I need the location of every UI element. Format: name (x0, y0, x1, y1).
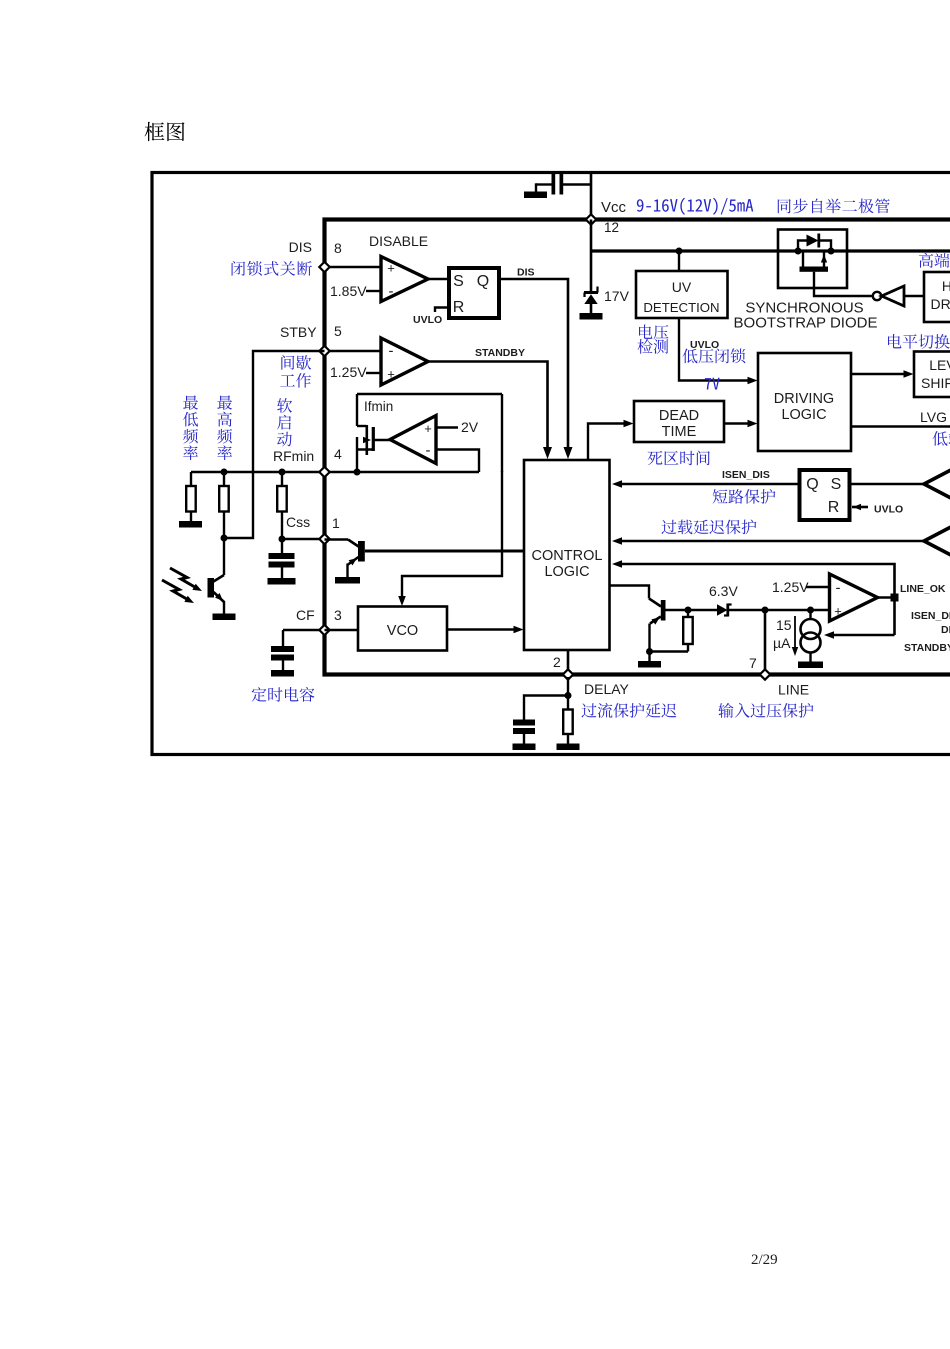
resistor R-line (687, 610, 689, 617)
wire line node to comparator plus (765, 609, 830, 611)
svg-text:4: 4 (334, 446, 342, 462)
wire inverter to HVG driver (904, 295, 924, 297)
wire Vcc rail (591, 249, 950, 252)
wire comparator to latch2 S (850, 483, 925, 486)
svg-text:+: + (387, 261, 395, 276)
latch U-isen SR (800, 470, 850, 520)
zener 17V (590, 220, 593, 294)
wire delay network (567, 677, 569, 696)
ground R-delay (557, 744, 580, 751)
wire Css external (282, 538, 325, 540)
svg-text:BOOTSTRAP DIODE: BOOTSTRAP DIODE (734, 315, 878, 332)
svg-text:DIS: DIS (517, 267, 535, 279)
label 闭锁式关断 (232, 261, 312, 276)
svg-text:1.85V: 1.85V (330, 283, 367, 299)
svg-text:SHIFTER: SHIFTER (921, 375, 950, 391)
wire cap right lead (563, 183, 591, 185)
svg-text:DELAY: DELAY (584, 681, 630, 697)
pin 5 node (319, 346, 329, 356)
svg-text:Vcc: Vcc (601, 199, 627, 216)
zener 6.3V (717, 604, 728, 615)
ground zener-17V (580, 313, 603, 320)
wire pin1 to transistor (325, 538, 349, 540)
wire UVLO to driving logic (679, 318, 748, 381)
capacitor C-delay (524, 696, 568, 720)
svg-text:17V: 17V (604, 288, 630, 304)
svg-text:UVLO: UVLO (874, 504, 903, 516)
pin 12 node Vcc (586, 214, 596, 224)
node stby-opto junction (221, 535, 228, 542)
ground C-delay (513, 744, 536, 751)
svg-text:STBY: STBY (280, 324, 317, 340)
ground Q-opto (213, 614, 236, 621)
svg-text:Q: Q (806, 476, 818, 493)
node R2 top (221, 469, 228, 476)
wire zener to line node (728, 609, 765, 611)
wire base drive to pnp2 (610, 586, 650, 599)
block DEAD TIME (634, 401, 724, 442)
resistor R-softstart (281, 472, 283, 486)
svg-text:DISABLE: DISABLE (369, 233, 428, 249)
label 死区时间 (648, 450, 710, 465)
wire latch1 Q to control logic (498, 279, 568, 448)
ground I-15uA (798, 662, 823, 669)
diode D-bootstrap (798, 241, 807, 252)
svg-text:8: 8 (334, 240, 342, 256)
node LINE_OK output (891, 594, 899, 602)
node Vcc-UV junction (676, 248, 683, 255)
svg-text:Ifmin: Ifmin (364, 399, 393, 414)
wire driving-logic to level-shifter (851, 373, 904, 375)
svg-text:R: R (453, 299, 465, 316)
wire bootstrap gate (814, 272, 873, 296)
capacitor C-f (282, 630, 284, 646)
svg-text:R: R (828, 499, 840, 516)
wire 2V input (436, 426, 458, 428)
svg-text:+: + (424, 421, 432, 436)
svg-text:Css: Css (286, 514, 310, 530)
svg-text:LINE: LINE (778, 682, 809, 698)
ground C-ss (268, 578, 296, 585)
wire cap left lead (536, 183, 552, 185)
svg-text:RFmin: RFmin (273, 448, 314, 464)
node mosfet source (354, 469, 361, 476)
node R3 top (279, 469, 286, 476)
wire control-logic to dead-time (588, 424, 624, 461)
svg-text:2V: 2V (461, 419, 479, 435)
node pnp2 emitter ground junction (646, 648, 653, 655)
resistor R-fmax (190, 472, 192, 486)
svg-text:µA: µA (773, 635, 791, 651)
transistor Q-css PNP (358, 541, 365, 562)
svg-text:DRIVER: DRIVER (931, 296, 950, 312)
wire opto collector (223, 538, 225, 575)
label 低压闭锁 (682, 348, 745, 363)
svg-text:DRIVING: DRIVING (774, 391, 834, 407)
svg-text:+: + (387, 367, 395, 382)
svg-text:DIS: DIS (289, 239, 312, 255)
ground Q-line (638, 661, 661, 668)
pin 4 node (319, 467, 329, 477)
label 同步自举二极管 (778, 199, 890, 214)
block HVG DRIVER (924, 272, 950, 322)
wire Ifmin to VCO (402, 471, 502, 597)
wire latch2 Q to control logic (622, 483, 800, 486)
op-amp U-isen comparator (924, 459, 950, 509)
label 过载延迟保护 (661, 519, 756, 534)
latch U-disable SR (449, 268, 499, 318)
wire comparator to latch1 (428, 278, 448, 280)
svg-text:LVG: LVG (920, 409, 947, 425)
svg-text:ISEN_DIS: ISEN_DIS (722, 469, 770, 481)
node bootstrap right (828, 248, 835, 255)
op-amp U-disable comparator (381, 257, 428, 302)
label 短路保护 (713, 489, 776, 504)
op-amp U-delayed comparator (924, 516, 950, 566)
svg-text:STANDBY: STANDBY (475, 347, 525, 359)
IC boundary (325, 220, 950, 675)
svg-text:1.25V: 1.25V (330, 364, 367, 380)
inverter U-hvg (873, 292, 881, 300)
svg-text:-: - (389, 343, 394, 360)
svg-text:HVG: HVG (942, 278, 950, 294)
label 电平切换 (888, 334, 950, 349)
wire resistor bottom to ground junction (650, 650, 689, 652)
wire UVLO to latch1 R (435, 308, 448, 313)
node line pin junction (762, 607, 769, 614)
label 最低频率 (183, 395, 198, 460)
transistor Q-bootstrap PMOS (800, 267, 829, 272)
op-amp U-lineok comparator (830, 574, 878, 621)
ground C-f (271, 670, 294, 677)
capacitor C-ss (281, 539, 283, 553)
label 过流保护延迟 (581, 703, 676, 718)
wire CF external (283, 629, 325, 631)
wire css collector to control logic (365, 550, 524, 553)
wire comparator output (878, 596, 895, 599)
svg-text:DEAD: DEAD (659, 408, 699, 424)
svg-text:LINE_OK: LINE_OK (900, 583, 946, 595)
svg-text:2: 2 (553, 654, 561, 670)
wire pin8 to comparator (325, 266, 382, 268)
capacitor C-Vcc plates (552, 174, 556, 195)
wire RFmin rail (191, 471, 479, 473)
svg-text:UV: UV (672, 279, 692, 295)
node R3 bottom (279, 536, 286, 543)
value 9-16V(12V)/5mA (637, 198, 753, 215)
pin 7 node (760, 669, 770, 679)
svg-text:ISEN_DIS: ISEN_DIS (911, 610, 950, 622)
svg-text:3: 3 (334, 607, 342, 623)
op-amp U-standby comparator (381, 338, 428, 385)
label 定时电容 (252, 687, 315, 702)
wire 1.85V to comparator (366, 290, 381, 292)
wire comparator minus to RFmin (436, 450, 479, 473)
pin 3 node (319, 625, 329, 635)
title 框图 (145, 122, 185, 141)
svg-text:2/29: 2/29 (751, 1252, 778, 1268)
node bootstrap left (795, 248, 802, 255)
node delay junction (565, 692, 572, 699)
wire pin5 to comparator (325, 350, 382, 352)
value 7V (705, 378, 720, 390)
wire UV-detection feed (678, 251, 680, 271)
svg-text:LOGIC: LOGIC (544, 564, 589, 580)
svg-text:S: S (453, 273, 464, 290)
block UV DETECTION (636, 271, 728, 318)
pin 2 node (563, 669, 573, 679)
svg-text:-: - (389, 283, 394, 300)
svg-text:CF: CF (296, 607, 315, 623)
pin 1 node (319, 534, 329, 544)
wire collector to zener (666, 609, 718, 611)
svg-text:6.3V: 6.3V (709, 583, 738, 599)
svg-text:-: - (836, 580, 841, 597)
wire 1.25V to comparator (806, 586, 830, 588)
block synchronous bootstrap diode (778, 230, 847, 289)
svg-text:CONTROL: CONTROL (532, 548, 603, 564)
transistor Q-ifmin MOSFET (357, 425, 367, 427)
node current source top (807, 607, 814, 614)
svg-text:LOGIC: LOGIC (781, 407, 826, 423)
transistor Q-line PNP (661, 600, 666, 621)
ground R-fmax (179, 521, 202, 528)
svg-text:+: + (834, 604, 842, 619)
current source I-15uA (809, 610, 811, 620)
wire STBY external (224, 351, 325, 538)
svg-text:DETECTION: DETECTION (643, 300, 719, 315)
svg-text:VCO: VCO (387, 623, 418, 639)
svg-text:7: 7 (749, 655, 757, 671)
wire standby to control logic (428, 362, 548, 449)
svg-text:UVLO: UVLO (413, 314, 442, 326)
ground Vcc-cap (524, 192, 547, 199)
label 软启动 (277, 398, 292, 446)
svg-text:STANDBY: STANDBY (904, 642, 950, 654)
svg-text:TIME: TIME (662, 424, 697, 440)
block VCO (358, 607, 447, 651)
svg-text:LEVEL: LEVEL (929, 357, 950, 373)
wire 1.25V to comparator (366, 372, 381, 374)
svg-text:1: 1 (332, 515, 340, 531)
svg-text:DIS: DIS (941, 624, 950, 636)
wire pin3 to VCO (325, 629, 359, 631)
svg-text:S: S (831, 476, 842, 493)
label 电压检测 (639, 325, 668, 340)
wire Vcc drop from frame top (590, 173, 593, 220)
label 低端驱动 (932, 431, 950, 446)
svg-text:12: 12 (604, 220, 619, 235)
svg-text:15: 15 (776, 617, 792, 633)
resistor R-delay (567, 696, 569, 710)
svg-text:-: - (426, 442, 431, 459)
wire overload comparator to control logic (622, 540, 924, 543)
wire line-ok to control logic (622, 564, 895, 598)
wire VCO to control logic (447, 628, 514, 630)
svg-text:1.25V: 1.25V (772, 579, 809, 595)
light arrows (170, 568, 197, 588)
wire feedback to current source (833, 634, 895, 637)
wire pin7 drop (764, 610, 767, 672)
block Ifmin (357, 393, 502, 395)
label 高端驱动 (919, 253, 950, 268)
op-amp U-ifmin comparator (390, 416, 436, 464)
ground Q-css (335, 577, 360, 584)
label 输入过压保护 (718, 703, 813, 718)
label 间歇工作 (281, 355, 311, 370)
block LEVEL SHIFTER (914, 352, 950, 398)
arrow current direction (794, 616, 796, 648)
svg-text:5: 5 (334, 323, 342, 339)
label 最高频率 (217, 395, 232, 460)
wire dead-time to driving-logic (724, 422, 748, 424)
transistor Q-opto (214, 575, 225, 582)
outer frame (152, 173, 950, 755)
block CONTROL LOGIC (524, 460, 610, 650)
wire pin2 from control logic (567, 650, 570, 672)
wire LVG output (851, 425, 950, 427)
wire latch2 R stub UVLO (852, 506, 868, 509)
resistor R-fmin (223, 472, 225, 486)
node resistor top (685, 607, 692, 614)
block DRIVING LOGIC (758, 353, 851, 451)
svg-text:Q: Q (477, 273, 489, 290)
